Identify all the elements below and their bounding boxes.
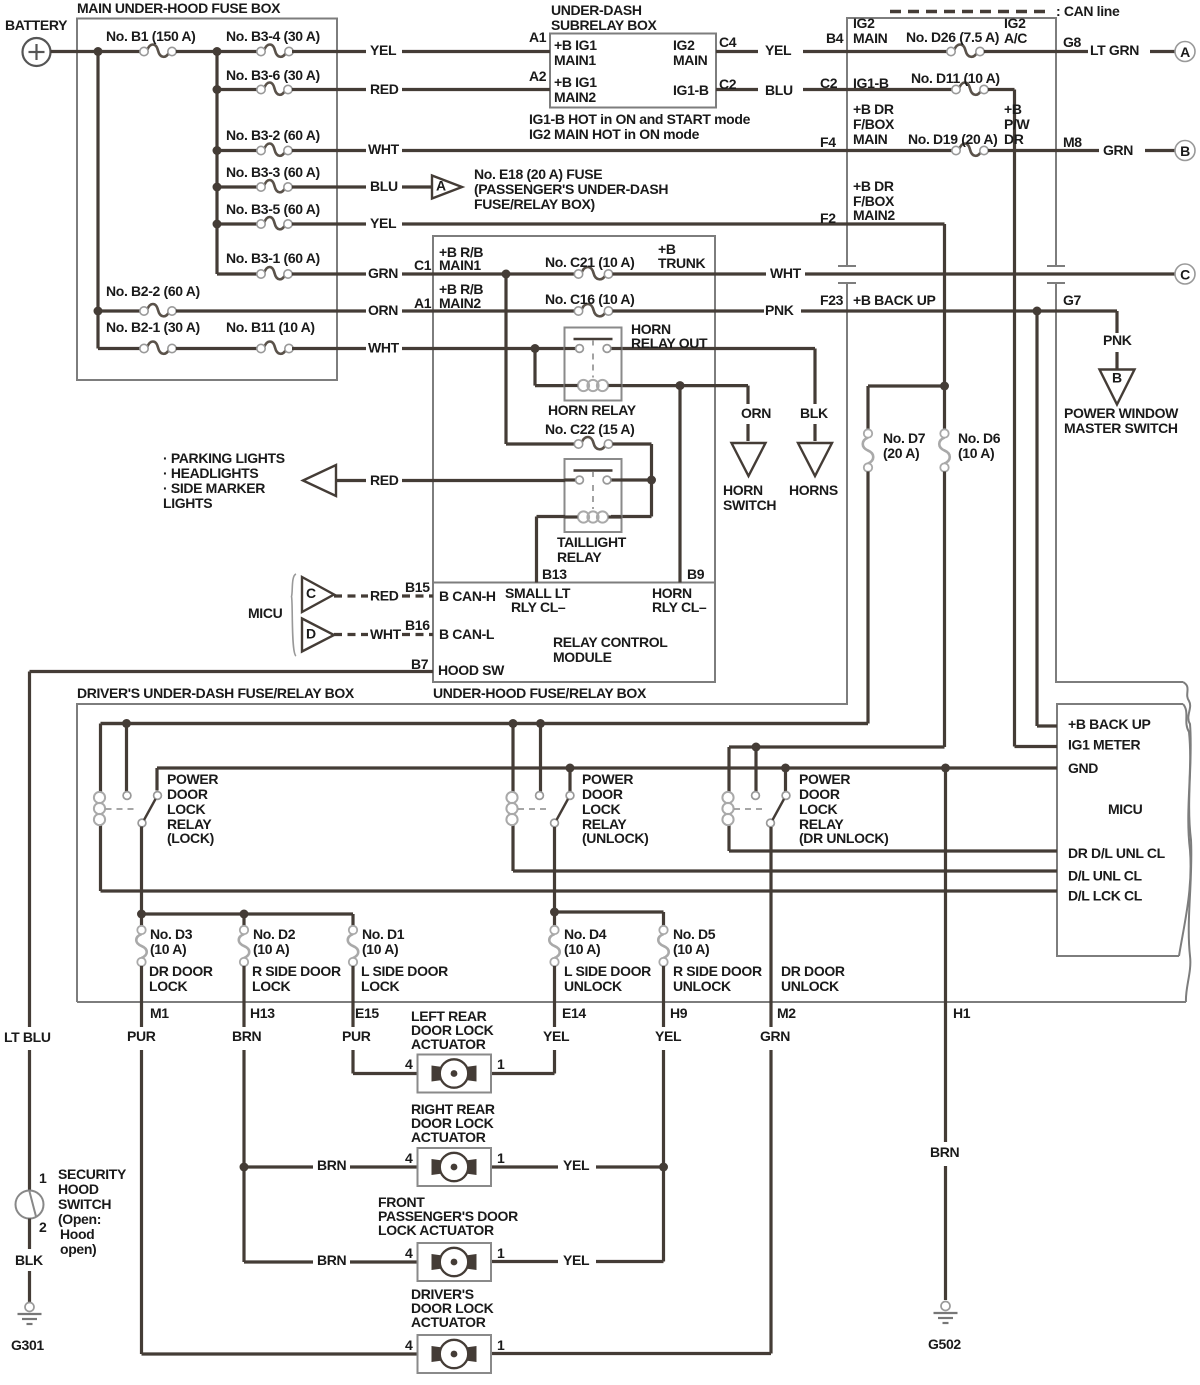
svg-text:A2: A2 [529,68,547,84]
svg-text:RELAY CONTROL: RELAY CONTROL [553,634,668,650]
svg-text:1: 1 [497,1056,505,1072]
svg-text:LT GRN: LT GRN [1090,42,1139,58]
svg-text:DOOR: DOOR [799,786,840,802]
svg-text:A1: A1 [529,29,547,45]
svg-text:No. D6: No. D6 [958,430,1001,446]
svg-text:MAIN2: MAIN2 [554,89,596,105]
svg-text:WHT: WHT [368,141,400,157]
svg-text:HORN: HORN [723,482,763,498]
svg-text:UNLOCK: UNLOCK [564,978,622,994]
svg-text:4: 4 [405,1245,413,1261]
svg-text:POWER: POWER [799,771,850,787]
svg-text:YEL: YEL [765,42,792,58]
svg-text:No. D11 (10 A): No. D11 (10 A) [911,70,1000,86]
svg-text:No. B3-5 (60 A): No. B3-5 (60 A) [226,201,320,217]
svg-text:C1: C1 [414,257,432,273]
svg-text:BRN: BRN [317,1252,347,1268]
svg-text:RLY CL–: RLY CL– [511,599,566,615]
svg-text:B15: B15 [405,579,430,595]
svg-text:No. D26 (7.5 A): No. D26 (7.5 A) [906,29,999,45]
svg-text:RED: RED [370,587,399,603]
svg-text:IG1 METER: IG1 METER [1068,736,1141,752]
svg-text:GND: GND [1068,760,1098,776]
svg-text:MICU: MICU [1108,801,1143,817]
svg-text:4: 4 [405,1337,413,1353]
svg-text:B CAN-L: B CAN-L [439,626,495,642]
svg-text:G7: G7 [1063,292,1082,308]
svg-text:BRN: BRN [930,1144,960,1160]
svg-text:ACTUATOR: ACTUATOR [411,1314,486,1330]
svg-text:LOCK: LOCK [361,978,400,994]
svg-text:PNK: PNK [1103,332,1132,348]
svg-text:E14: E14 [562,1005,586,1021]
svg-text:MAIN: MAIN [673,52,708,68]
svg-text:(10 A): (10 A) [150,941,186,957]
svg-text:Hood: Hood [60,1226,94,1242]
svg-text:C2: C2 [719,76,737,92]
svg-text:C: C [306,585,316,601]
svg-text:DR D/L UNL CL: DR D/L UNL CL [1068,845,1166,861]
svg-text:YEL: YEL [370,42,397,58]
svg-text:(10 A): (10 A) [673,941,709,957]
svg-text:PNK: PNK [765,302,794,318]
svg-text:F23: F23 [820,292,844,308]
svg-text:+B IG1: +B IG1 [554,37,597,53]
svg-text:BLU: BLU [765,82,793,98]
svg-text:RELAY OUT: RELAY OUT [631,335,708,351]
svg-text:No. B2-2 (60 A): No. B2-2 (60 A) [106,283,200,299]
svg-text:C: C [1180,266,1190,282]
svg-text:H9: H9 [670,1005,688,1021]
svg-text:No. D2: No. D2 [253,926,296,942]
svg-text:G301: G301 [11,1337,44,1353]
svg-text:+B BACK UP: +B BACK UP [1068,716,1150,732]
svg-text:No. E18 (20 A) FUSE: No. E18 (20 A) FUSE [474,166,602,182]
svg-text:ORN: ORN [741,405,771,421]
svg-text:P/W: P/W [1004,116,1031,132]
svg-text:YEL: YEL [563,1157,590,1173]
svg-text:DR: DR [1004,131,1024,147]
svg-text:L SIDE DOOR: L SIDE DOOR [564,963,651,979]
svg-text:A/C: A/C [1004,30,1027,46]
svg-text:MAIN: MAIN [853,131,888,147]
svg-text:D/L UNL CL: D/L UNL CL [1068,867,1143,883]
svg-text:1: 1 [497,1150,505,1166]
svg-text:E15: E15 [355,1005,379,1021]
svg-text:GRN: GRN [368,265,398,281]
svg-text:No. C22 (15 A): No. C22 (15 A) [545,421,635,437]
svg-text:R SIDE DOOR: R SIDE DOOR [252,963,341,979]
svg-text:UNLOCK: UNLOCK [673,978,731,994]
svg-text:HOOD: HOOD [58,1181,99,1197]
svg-text:RED: RED [370,472,399,488]
svg-text:No. D1: No. D1 [362,926,405,942]
svg-text:PUR: PUR [342,1028,371,1044]
svg-text:R SIDE DOOR: R SIDE DOOR [673,963,762,979]
svg-text:No. B2-1 (30 A): No. B2-1 (30 A) [106,319,200,335]
svg-text:No. C21 (10 A): No. C21 (10 A) [545,254,635,270]
svg-text:No. D3: No. D3 [150,926,193,942]
svg-text:YEL: YEL [655,1028,682,1044]
svg-text:YEL: YEL [563,1252,590,1268]
svg-text:BATTERY: BATTERY [5,17,68,33]
svg-text:+B DR: +B DR [853,101,894,117]
svg-text:+B IG1: +B IG1 [554,74,597,90]
svg-text:D: D [306,625,316,641]
svg-text:(10 A): (10 A) [958,445,994,461]
svg-text:H13: H13 [250,1005,275,1021]
svg-text:ACTUATOR: ACTUATOR [411,1129,486,1145]
svg-text:H1: H1 [953,1005,971,1021]
svg-text:WHT: WHT [368,339,400,355]
svg-text:IG2: IG2 [853,15,875,31]
svg-text:UNDER-HOOD FUSE/RELAY BOX: UNDER-HOOD FUSE/RELAY BOX [433,685,647,701]
svg-text:(LOCK): (LOCK) [167,830,214,846]
svg-text:(PASSENGER'S UNDER-DASH: (PASSENGER'S UNDER-DASH [474,181,668,197]
svg-text:No. D5: No. D5 [673,926,716,942]
svg-text:RELAY: RELAY [557,549,602,565]
svg-text:BLK: BLK [800,405,828,421]
svg-text:SECURITY: SECURITY [58,1166,127,1182]
svg-text:M2: M2 [777,1005,796,1021]
svg-text:YEL: YEL [370,215,397,231]
svg-text:F4: F4 [820,134,836,150]
svg-text:WHT: WHT [770,265,802,281]
svg-text:B9: B9 [687,566,705,582]
svg-text:MAIN1: MAIN1 [439,257,481,273]
svg-text:RLY CL–: RLY CL– [652,599,707,615]
svg-text:· HEADLIGHTS: · HEADLIGHTS [163,465,258,481]
svg-text:L SIDE DOOR: L SIDE DOOR [361,963,448,979]
svg-text:POWER: POWER [582,771,633,787]
svg-text:A: A [1180,44,1190,60]
svg-text:(10 A): (10 A) [253,941,289,957]
svg-text:No. D19 (20 A): No. D19 (20 A) [908,131,998,147]
svg-text:B CAN-H: B CAN-H [439,588,496,604]
svg-text:UNDER-DASH: UNDER-DASH [551,2,642,18]
svg-text:LOCK: LOCK [167,801,206,817]
svg-text:IG2 MAIN HOT in ON mode: IG2 MAIN HOT in ON mode [529,126,700,142]
svg-text:POWER WINDOW: POWER WINDOW [1064,405,1179,421]
svg-text:B13: B13 [542,566,567,582]
svg-text:D/L LCK CL: D/L LCK CL [1068,887,1143,903]
svg-text:DR DOOR: DR DOOR [781,963,845,979]
svg-text:No. B3-2 (60 A): No. B3-2 (60 A) [226,127,320,143]
svg-text:LIGHTS: LIGHTS [163,495,212,511]
svg-text:+B BACK UP: +B BACK UP [853,292,935,308]
svg-text:· SIDE MARKER: · SIDE MARKER [163,480,265,496]
svg-text:BRN: BRN [317,1157,347,1173]
svg-text:MAIN2: MAIN2 [853,207,895,223]
svg-text:RED: RED [370,81,399,97]
svg-text:PUR: PUR [127,1028,156,1044]
svg-text:1: 1 [497,1337,505,1353]
svg-text:MAIN UNDER-HOOD FUSE BOX: MAIN UNDER-HOOD FUSE BOX [77,0,281,16]
svg-text:SUBRELAY BOX: SUBRELAY BOX [551,17,658,33]
svg-text:MAIN: MAIN [853,30,888,46]
svg-text:1: 1 [497,1245,505,1261]
svg-text:HOOD SW: HOOD SW [438,662,505,678]
svg-text:SWITCH: SWITCH [723,497,776,513]
svg-text:No. D4: No. D4 [564,926,607,942]
svg-text:B16: B16 [405,617,430,633]
svg-text:2: 2 [39,1219,47,1235]
svg-text:(10 A): (10 A) [564,941,600,957]
svg-text:BLK: BLK [15,1252,43,1268]
svg-text:: CAN line: : CAN line [1056,3,1120,19]
svg-text:B4: B4 [826,30,844,46]
svg-text:(10 A): (10 A) [362,941,398,957]
svg-text:A1: A1 [414,295,432,311]
svg-text:MAIN2: MAIN2 [439,295,481,311]
svg-text:IG1-B HOT in ON and START mode: IG1-B HOT in ON and START mode [529,111,751,127]
svg-text:· PARKING LIGHTS: · PARKING LIGHTS [163,450,285,466]
svg-text:IG2: IG2 [673,37,695,53]
svg-text:G502: G502 [928,1336,961,1352]
svg-text:LOCK: LOCK [252,978,291,994]
svg-text:No. B3-3 (60 A): No. B3-3 (60 A) [226,164,320,180]
svg-text:FUSE/RELAY BOX): FUSE/RELAY BOX) [474,196,595,212]
svg-text:LOCK: LOCK [799,801,838,817]
svg-text:DR DOOR: DR DOOR [149,963,213,979]
svg-text:YEL: YEL [543,1028,570,1044]
svg-text:HORNS: HORNS [789,482,838,498]
svg-text:C2: C2 [820,75,838,91]
svg-text:M8: M8 [1063,134,1082,150]
svg-text:+B: +B [1004,101,1022,117]
svg-text:No. B3-6 (30 A): No. B3-6 (30 A) [226,67,320,83]
svg-text:No. B1 (150 A): No. B1 (150 A) [106,28,196,44]
svg-text:No. C16 (10 A): No. C16 (10 A) [545,291,635,307]
svg-text:B: B [1180,143,1190,159]
svg-text:MAIN1: MAIN1 [554,52,596,68]
svg-text:DOOR: DOOR [582,786,623,802]
svg-text:TAILLIGHT: TAILLIGHT [557,534,627,550]
svg-text:MODULE: MODULE [553,649,612,665]
svg-text:UNLOCK: UNLOCK [781,978,839,994]
svg-text:GRN: GRN [760,1028,790,1044]
svg-text:LT BLU: LT BLU [4,1029,51,1045]
svg-text:4: 4 [405,1150,413,1166]
svg-text:LOCK: LOCK [582,801,621,817]
svg-text:(20 A): (20 A) [883,445,919,461]
svg-text:No. B3-4 (30 A): No. B3-4 (30 A) [226,28,320,44]
svg-text:BRN: BRN [232,1028,262,1044]
svg-text:SWITCH: SWITCH [58,1196,111,1212]
svg-text:1: 1 [39,1170,47,1186]
svg-text:LOCK ACTUATOR: LOCK ACTUATOR [378,1222,494,1238]
svg-text:MICU: MICU [248,605,283,621]
svg-text:(Open:: (Open: [58,1211,101,1227]
svg-text:MASTER SWITCH: MASTER SWITCH [1064,420,1178,436]
svg-text:M1: M1 [150,1005,169,1021]
svg-text:HORN RELAY: HORN RELAY [548,402,637,418]
svg-text:IG2: IG2 [1004,15,1026,31]
svg-text:+B DR: +B DR [853,178,894,194]
svg-text:F2: F2 [820,210,836,226]
svg-text:4: 4 [405,1056,413,1072]
svg-text:POWER: POWER [167,771,218,787]
svg-text:A: A [436,177,446,193]
svg-text:(UNLOCK): (UNLOCK) [582,830,648,846]
svg-text:G8: G8 [1063,34,1082,50]
svg-text:TRUNK: TRUNK [658,255,705,271]
svg-text:No. B3-1 (60 A): No. B3-1 (60 A) [226,250,320,266]
svg-text:(DR UNLOCK): (DR UNLOCK) [799,830,888,846]
svg-text:B: B [1112,369,1122,385]
svg-text:F/BOX: F/BOX [853,116,895,132]
svg-text:ACTUATOR: ACTUATOR [411,1036,486,1052]
svg-text:BLU: BLU [370,178,398,194]
svg-text:WHT: WHT [370,626,402,642]
svg-text:DRIVER'S UNDER-DASH FUSE/RELAY: DRIVER'S UNDER-DASH FUSE/RELAY BOX [77,685,355,701]
svg-text:open): open) [60,1241,96,1257]
svg-text:LOCK: LOCK [149,978,188,994]
svg-text:No. B11 (10 A): No. B11 (10 A) [226,319,315,335]
svg-text:C4: C4 [719,34,737,50]
svg-text:IG1-B: IG1-B [673,82,709,98]
svg-text:No. D7: No. D7 [883,430,926,446]
svg-text:GRN: GRN [1103,142,1133,158]
svg-text:B7: B7 [411,656,429,672]
svg-text:ORN: ORN [368,302,398,318]
svg-text:DOOR: DOOR [167,786,208,802]
svg-text:IG1-B: IG1-B [853,75,889,91]
